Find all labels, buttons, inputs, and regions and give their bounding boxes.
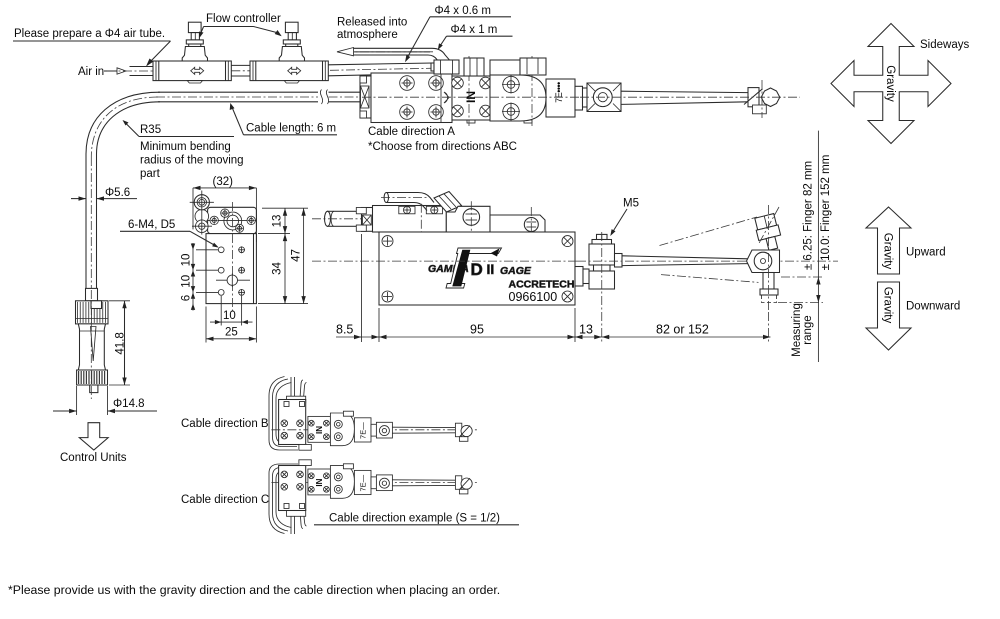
sideview: finger clamp screw (753, 213, 783, 252)
gauge head A: IN mid section (452, 76, 492, 120)
sideview: M5 valve (575, 234, 622, 289)
svg-text:M5: M5 (623, 198, 639, 210)
svg-text:Sideways: Sideways (920, 39, 969, 51)
plate: main plate (206, 202, 256, 312)
sideview: slanted clamp fitting (434, 192, 462, 213)
label: Air in (78, 66, 126, 78)
svg-text:13: 13 (579, 323, 593, 337)
svg-text:II: II (487, 261, 495, 277)
svg-text:10: 10 (181, 254, 193, 267)
gauge head A: bottom tabs (467, 120, 475, 123)
dimension: bottom 25 (206, 307, 256, 343)
svg-text:Control Units: Control Units (60, 452, 127, 464)
wire: C cable left S-curve (273, 468, 298, 532)
wire: tube between flow controllers (231, 65, 250, 76)
svg-text:Gravity: Gravity (882, 233, 894, 270)
wire: B cable left S-curve (273, 379, 298, 447)
svg-text:Φ4 x 0.6 m: Φ4 x 0.6 m (435, 5, 491, 17)
gauge head C: rear block (287, 510, 306, 517)
gauge head A: end cap with 7E marking (546, 79, 583, 117)
sideview: finger lower stem (760, 205, 778, 342)
svg-text:R35: R35 (140, 124, 161, 136)
sideview: cable gland (356, 208, 372, 232)
svg-text:Cable direction A: Cable direction A (368, 126, 455, 138)
gauge head C: head/rod (271, 464, 479, 499)
svg-text:Please prepare a Φ4 air tube.: Please prepare a Φ4 air tube. (14, 28, 165, 40)
svg-text:Upward: Upward (906, 247, 946, 259)
svg-text:Cable direction B: Cable direction B (181, 418, 269, 430)
gauge head C figure (269, 460, 479, 534)
dimension: measuring range (778, 131, 823, 362)
label: 6-M4, D5 (120, 219, 219, 248)
gauge head A: rounded section (490, 75, 546, 121)
plate: mounting holes 6-M4 (218, 246, 245, 295)
wire: cable vertical run (86, 154, 97, 290)
svg-text:82 or 152: 82 or 152 (656, 323, 709, 337)
dimension: bottom 8.5 95 13 82-or-152 (336, 234, 771, 342)
svg-text:34: 34 (272, 262, 284, 275)
gauge head B: rear block (287, 396, 306, 403)
connector: bottom stub (90, 290, 98, 399)
svg-text:Cable length: 6 m: Cable length: 6 m (246, 123, 336, 135)
label: R35 minimum bending radius (123, 120, 244, 180)
svg-text:GAGE: GAGE (500, 265, 532, 277)
gauge head A: swivel joint (583, 83, 622, 112)
gauge head A: rod end fitting (744, 88, 780, 114)
sideview: bent tube handle (381, 193, 434, 211)
svg-text:part: part (140, 168, 161, 180)
sideview: main body with logo (379, 232, 575, 305)
label: Phi4 x 1 m (438, 24, 513, 50)
svg-text:± 10.0: Finger 152 mm: ± 10.0: Finger 152 mm (820, 155, 832, 271)
svg-text:ACCRETECH: ACCRETECH (509, 279, 575, 291)
svg-text:Cable direction example (S = 1: Cable direction example (S = 1/2) (329, 513, 500, 525)
wire: C cables going down (290, 510, 292, 534)
plate: top block assembly (190, 191, 257, 235)
sideview: measuring rod (312, 232, 838, 342)
flow controller 1 (153, 22, 231, 83)
gauge head A: cable gland left (360, 76, 371, 118)
sideview: cable stub (312, 211, 364, 226)
svg-text:Downward: Downward (906, 301, 960, 313)
svg-text:Flow controller: Flow controller (206, 13, 281, 25)
sideview: finger pivot block (747, 250, 780, 273)
dimension: bottom 10 (210, 296, 253, 326)
svg-text:10: 10 (223, 310, 236, 322)
svg-text:*Please provide us with the gr: *Please provide us with the gravity dire… (8, 583, 500, 597)
wire: tube FC2 to gauge head (329, 63, 435, 76)
svg-text:(32): (32) (213, 176, 234, 188)
connector: cable end stub (86, 288, 98, 300)
label: Released into atmosphere (337, 17, 407, 41)
junction: cable break mark (320, 90, 328, 105)
gauge head A: main block (371, 73, 452, 123)
svg-text:D: D (471, 260, 483, 279)
connector: lower knurled ring (77, 370, 108, 385)
label: Phi4 x 0.6 m (405, 5, 511, 62)
arrow: 4-way gravity cross (831, 24, 951, 144)
dimension: Phi 5.6 (71, 187, 137, 201)
arrow: gravity downward (866, 282, 911, 350)
flow controller 2 (250, 22, 328, 83)
dimension: right 13 34 47 (258, 208, 308, 303)
sideview: right lower extension (490, 207, 545, 238)
label: M5 (610, 198, 639, 237)
svg-text:± 6.25: Finger 82 mm: ± 6.25: Finger 82 mm (802, 161, 814, 270)
sideview: top mechanism block (373, 206, 447, 233)
svg-text:Air in: Air in (78, 66, 104, 78)
svg-text:Φ14.8: Φ14.8 (113, 398, 145, 410)
gauge head B figure (269, 377, 479, 451)
dimension: left 10 10 6 stack (181, 243, 218, 311)
svg-text:Gravity: Gravity (882, 287, 894, 324)
svg-text:Minimum bending: Minimum bending (140, 141, 231, 153)
svg-text:*Choose from directions ABC: *Choose from directions ABC (368, 141, 517, 153)
wire: tube released to atmosphere (337, 48, 455, 68)
label: Control Units arrow (79, 423, 108, 450)
svg-text:6-M4, D5: 6-M4, D5 (128, 219, 175, 231)
wire: air inlet tube (107, 67, 154, 76)
svg-text:Gravity: Gravity (884, 65, 896, 102)
label: Please prepare a Phi4 air tube (13, 28, 171, 67)
svg-text:95: 95 (470, 323, 484, 337)
svg-text:10: 10 (181, 275, 193, 288)
dimension: Phi 14.8 (53, 386, 157, 415)
connector: tapered body (78, 324, 105, 370)
label: Flow controller (199, 13, 282, 39)
wire: B cables going up (290, 377, 292, 398)
svg-text:47: 47 (291, 249, 303, 262)
svg-text:6: 6 (181, 295, 193, 301)
sideview: stepped block (421, 201, 490, 246)
svg-text:Φ5.6: Φ5.6 (105, 187, 130, 199)
gauge head A: top tube fittings (431, 58, 546, 76)
arrow: gravity upward (866, 207, 911, 274)
svg-text:atmosphere: atmosphere (337, 29, 398, 41)
sideview: finger swing envelope (660, 217, 759, 282)
wire: head A centerlines (362, 56, 800, 126)
label: Cable direction example (314, 513, 519, 525)
label: Cable length 6 m (230, 103, 337, 135)
svg-text:25: 25 (225, 327, 238, 339)
svg-text:Φ4 x 1 m: Φ4 x 1 m (451, 24, 498, 36)
svg-text:Released into: Released into (337, 17, 407, 29)
svg-text:radius of the moving: radius of the moving (140, 155, 244, 167)
svg-text:8.5: 8.5 (336, 323, 353, 337)
svg-text:0966100: 0966100 (509, 290, 558, 304)
wire: cable R35 bend (86, 92, 160, 157)
svg-text:7E••••: 7E•••• (554, 82, 564, 103)
dimension: (32) (193, 176, 256, 242)
svg-text:41.8: 41.8 (115, 332, 127, 354)
connector: upper knurled ring (76, 301, 109, 324)
dimension: 41.8 (109, 301, 130, 385)
label: finger range notes (802, 155, 832, 271)
gauge head B: head/rod (271, 411, 479, 446)
svg-text:13: 13 (272, 215, 284, 228)
svg-text:Cable direction C: Cable direction C (181, 494, 269, 506)
svg-text:range: range (802, 315, 814, 344)
gauge head A: contact rod (621, 91, 748, 104)
wire: 6 m cable horizontal run (156, 92, 362, 102)
logo: GAMMA D II GAGE (428, 248, 574, 304)
